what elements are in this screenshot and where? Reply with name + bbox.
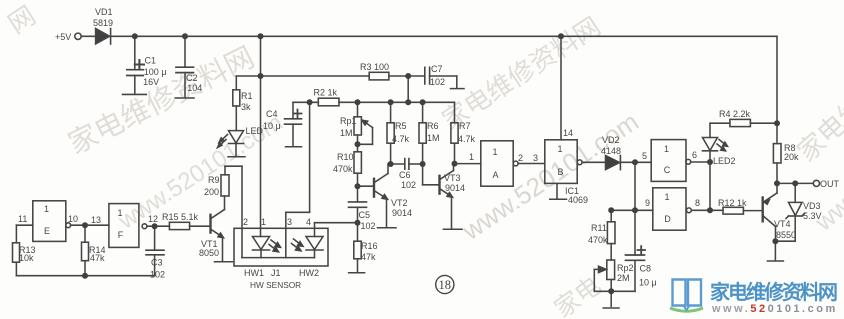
svg-text:104: 104: [187, 83, 202, 93]
svg-text:9: 9: [645, 198, 650, 208]
svg-text:HW SENSOR: HW SENSOR: [250, 280, 301, 290]
svg-text:J1: J1: [271, 268, 281, 278]
svg-text:1: 1: [117, 208, 122, 218]
svg-text:A: A: [492, 170, 498, 180]
svg-text:HW2: HW2: [299, 268, 319, 278]
svg-text:R16: R16: [361, 241, 378, 251]
svg-text:C4: C4: [266, 109, 278, 119]
svg-text:VT3: VT3: [444, 173, 461, 183]
svg-text:OUT: OUT: [820, 179, 840, 189]
svg-text:5: 5: [642, 151, 647, 161]
svg-text:14: 14: [563, 128, 573, 138]
svg-text:470k: 470k: [588, 235, 608, 245]
svg-text:3k: 3k: [241, 102, 251, 112]
svg-text:D: D: [664, 214, 671, 224]
svg-text:102: 102: [401, 180, 416, 190]
svg-text:1M: 1M: [340, 128, 353, 138]
svg-text:1: 1: [664, 192, 669, 202]
svg-text:C5: C5: [359, 210, 371, 220]
svg-text:1: 1: [469, 152, 474, 162]
svg-text:HW1: HW1: [244, 268, 264, 278]
svg-text:LED: LED: [246, 126, 264, 136]
svg-text:2: 2: [518, 153, 523, 163]
svg-text:R5: R5: [395, 121, 407, 131]
svg-text:C6: C6: [399, 170, 411, 180]
svg-text:2M: 2M: [617, 273, 630, 283]
svg-text:20k: 20k: [784, 152, 799, 162]
svg-text:VD1: VD1: [95, 7, 113, 17]
svg-text:+5V: +5V: [55, 32, 71, 42]
svg-text:1: 1: [261, 217, 266, 227]
svg-text:470k: 470k: [333, 164, 353, 174]
svg-text:R9: R9: [208, 175, 220, 185]
svg-text:C: C: [664, 165, 671, 175]
svg-text:4: 4: [306, 217, 311, 227]
svg-text:10k: 10k: [19, 253, 34, 263]
svg-text:C2: C2: [186, 73, 198, 83]
svg-text:R3 100: R3 100: [360, 62, 389, 72]
svg-text:10 μ: 10 μ: [639, 278, 657, 288]
svg-text:C3: C3: [151, 258, 163, 268]
svg-text:2: 2: [243, 217, 248, 227]
svg-text:4.7k: 4.7k: [392, 134, 410, 144]
svg-text:100 μ: 100 μ: [144, 67, 167, 77]
svg-text:9014: 9014: [445, 183, 465, 193]
svg-text:C1: C1: [145, 56, 157, 66]
svg-text:11: 11: [18, 214, 27, 224]
svg-text:R12 1k: R12 1k: [718, 198, 747, 208]
svg-text:家电维修资料网: 家电维修资料网: [710, 280, 837, 304]
svg-text:47k: 47k: [361, 252, 376, 262]
svg-text:5819: 5819: [93, 18, 113, 28]
svg-text:B: B: [557, 167, 563, 177]
svg-text:VD3: VD3: [803, 201, 821, 211]
svg-text:R2 1k: R2 1k: [314, 88, 338, 98]
svg-text:18: 18: [439, 278, 452, 292]
svg-text:VD2: VD2: [602, 135, 620, 145]
svg-text:R1: R1: [241, 91, 253, 101]
svg-text:4148: 4148: [601, 146, 621, 156]
svg-text:10: 10: [68, 214, 78, 224]
svg-text:16V: 16V: [143, 77, 159, 87]
svg-text:12: 12: [148, 214, 158, 224]
svg-text:C7: C7: [431, 64, 443, 74]
svg-text:Rp2: Rp2: [617, 263, 634, 273]
svg-text:6: 6: [692, 150, 697, 160]
svg-text:200: 200: [204, 187, 219, 197]
svg-text:102: 102: [150, 270, 165, 280]
svg-text:R15 5.1k: R15 5.1k: [162, 212, 199, 222]
svg-text:102: 102: [430, 77, 445, 87]
svg-text:1: 1: [492, 147, 497, 157]
svg-text:9014: 9014: [392, 208, 412, 218]
svg-text:10 μ: 10 μ: [263, 121, 281, 131]
svg-text:LED2: LED2: [713, 156, 736, 166]
svg-text:1: 1: [664, 144, 669, 154]
svg-text:102: 102: [361, 221, 376, 231]
svg-text:8050: 8050: [199, 248, 219, 258]
svg-text:R10: R10: [337, 152, 354, 162]
svg-text:R7: R7: [459, 121, 471, 131]
svg-text:Rp1: Rp1: [340, 116, 357, 126]
svg-text:4069: 4069: [568, 195, 588, 205]
svg-text:1: 1: [557, 144, 562, 154]
svg-text:VT4: VT4: [774, 219, 791, 229]
svg-text:13: 13: [91, 215, 101, 225]
svg-text:47k: 47k: [90, 253, 105, 263]
svg-text:R11: R11: [591, 223, 607, 233]
svg-text:5.3V: 5.3V: [803, 211, 822, 221]
svg-text:VT2: VT2: [391, 198, 408, 208]
svg-text:C8: C8: [640, 264, 652, 274]
svg-text:E: E: [44, 226, 50, 236]
svg-text:1M: 1M: [427, 133, 440, 143]
svg-text:4.7k: 4.7k: [458, 134, 476, 144]
svg-text:8: 8: [695, 198, 700, 208]
svg-text:www.520101.com: www.520101.com: [711, 303, 838, 315]
svg-text:1: 1: [44, 204, 49, 214]
svg-text:R6: R6: [427, 121, 439, 131]
svg-text:R4 2.2k: R4 2.2k: [719, 109, 751, 119]
svg-text:3: 3: [287, 217, 292, 227]
svg-text:3: 3: [533, 153, 538, 163]
svg-text:8550: 8550: [776, 230, 796, 240]
svg-text:F: F: [118, 230, 124, 240]
